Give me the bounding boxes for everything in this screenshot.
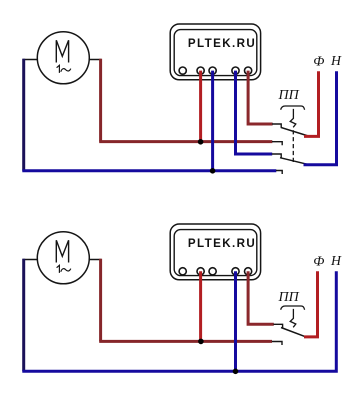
wire: dark red vertical from motor right (top) — [99, 59, 102, 142]
switch contact A stub (bottom) — [273, 324, 282, 327]
switch contact D stub (top) — [276, 171, 282, 175]
junction: red bus / terminal 2 (bottom) — [198, 339, 204, 345]
wire: neutral blue line Н (top) — [304, 71, 337, 165]
wire: phase red line Ф (bottom) — [304, 271, 318, 337]
wire: navy vertical from motor left (top) — [22, 59, 25, 171]
terminal 3 (bottom) — [209, 268, 216, 275]
wire: blue horizontal bottom bus (top) — [22, 169, 276, 172]
wire: blue bottom bus to Н (bottom) — [22, 271, 336, 371]
svg-text:PLTEK.RU: PLTEK.RU — [188, 37, 256, 50]
terminal 5 (top) — [245, 67, 252, 74]
terminal 1 (top) — [179, 67, 186, 74]
motor M1 (top) — [37, 32, 89, 84]
junction: blue bus / terminal 3 (top) — [210, 168, 216, 174]
wire: bright red from terminal 2 down to junction (top) — [199, 71, 202, 142]
terminal 4 (bottom) — [232, 268, 239, 275]
terminal 2 (bottom) — [197, 268, 204, 275]
svg-text:Ф: Ф — [313, 254, 324, 269]
switch arm pole 1 (top) — [281, 127, 310, 136]
junction: red bus / terminal 2 (top) — [198, 139, 204, 145]
svg-text:ПП: ПП — [278, 88, 300, 103]
bracket over switch (bottom) — [281, 306, 305, 310]
wire: black stub motor right (top) — [89, 59, 102, 61]
junction: blue bus / terminal 4 (bottom) — [233, 369, 239, 375]
terminal 1 (bottom) — [179, 268, 186, 275]
terminal 3 (top) — [209, 67, 216, 74]
wire: black stub motor left (top) — [23, 59, 38, 61]
wire: blue from terminal 3 down to junction (top) — [211, 71, 214, 171]
terminal 2 (top) — [197, 67, 204, 74]
svg-text:Н: Н — [330, 253, 342, 268]
switch arm (bottom) — [281, 328, 306, 337]
motor M2 (bottom) — [37, 232, 89, 284]
wire: bright red from terminal 2 down to junction (bottom) — [199, 271, 202, 341]
svg-text:PLTEK.RU: PLTEK.RU — [188, 237, 256, 250]
wire: blue from terminal 4 down to junction (bottom) — [234, 271, 237, 371]
wire: blue from terminal 4 down then right (top) — [236, 71, 273, 154]
wire: dark red from terminal 5 down then right (top) — [248, 71, 273, 124]
switch contact A stub (top) — [272, 124, 281, 128]
wire: dark red horizontal to switch (top) — [99, 140, 272, 143]
wire: phase red line Ф (top) — [304, 71, 319, 136]
switch contact C stub (top) — [272, 154, 281, 158]
wire: black stub motor left (bottom) — [23, 259, 38, 261]
switch arm pole 2 (top) — [280, 158, 310, 165]
box PLTEK.RU (bottom) — [170, 224, 260, 280]
switch contact B stub (top) — [272, 142, 282, 146]
bracket over switch (top) — [281, 106, 305, 110]
terminal 4 (top) — [232, 67, 239, 74]
switch contact B stub (bottom) — [272, 342, 282, 346]
switch handle zigzag (top) — [290, 109, 296, 127]
svg-text:ПП: ПП — [278, 290, 300, 305]
dashed coupling link (top) — [292, 130, 294, 163]
terminal 5 (bottom) — [245, 268, 252, 275]
box PLTEK.RU (top) — [170, 24, 260, 80]
wire: dark red horizontal to switch (bottom) — [99, 340, 272, 343]
wire: navy vertical from motor left (bottom) — [22, 259, 25, 372]
wire: dark red from terminal 5 down then right (bottom) — [248, 271, 274, 324]
svg-text:Н: Н — [330, 53, 342, 68]
wire: dark red vertical from motor right (bottom) — [99, 259, 102, 342]
switch handle zigzag (bottom) — [290, 309, 296, 327]
svg-text:Ф: Ф — [313, 54, 324, 69]
wire: black stub motor right (bottom) — [89, 259, 102, 261]
